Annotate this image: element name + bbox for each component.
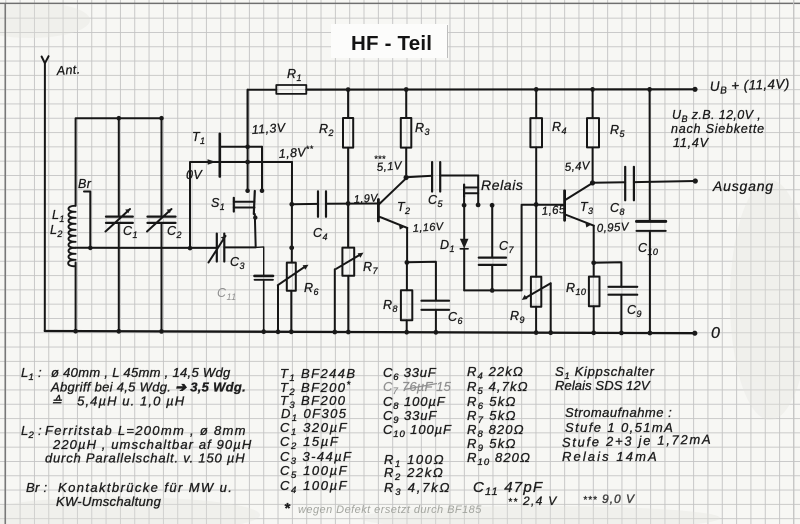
transistor T2 [378, 178, 407, 262]
capacitor C1 (variable) [106, 118, 133, 331]
capacitor C11 [255, 247, 274, 332]
resistor R4 [530, 89, 542, 276]
capacitor C7 [479, 205, 506, 290]
capacitor C5 [406, 162, 478, 191]
switch S1 [234, 191, 255, 214]
svg-text:5,1V: 5,1V [376, 160, 403, 174]
node: T2 collector junction [404, 175, 409, 180]
relay coil [464, 176, 478, 206]
resistor R2 [343, 90, 353, 248]
svg-text:Abgriff bei 4,5 Wdg. ➔ 3,5 Wdg: Abgriff bei 4,5 Wdg. ➔ 3,5 Wdg. [50, 380, 246, 395]
wire: antenna down-lead [44, 63, 46, 331]
node: T3 base junction [534, 202, 539, 207]
node: T3 collector junction [590, 180, 595, 185]
wire: T1 gate line [190, 162, 292, 248]
node: stray junction below C4 [289, 245, 294, 250]
capacitor C8 [593, 167, 696, 201]
resistor R6 (variable) [278, 263, 309, 332]
transistor T3 [565, 183, 594, 263]
node: C7 top [490, 203, 495, 208]
node: Br tap junction [88, 246, 93, 251]
resistor R8 [401, 262, 412, 332]
svg-text:Relais 14mA: Relais 14mA [562, 449, 659, 464]
node: relay terminal b [476, 203, 481, 208]
wire: tank top [76, 118, 162, 206]
node: relay terminal a [462, 203, 467, 208]
wire: tap to C3 [76, 247, 217, 249]
resistor R7 (variable) [335, 248, 364, 332]
resistor R1 [248, 85, 306, 94]
svg-text:5,4V: 5,4V [564, 160, 591, 174]
svg-text:HF - Teil: HF - Teil [351, 32, 432, 55]
svg-text:≙ 5,4µH u. 1,0 µH: ≙ 5,4µH u. 1,0 µH [51, 394, 185, 409]
svg-text:0: 0 [711, 325, 720, 342]
capacitor C4 [292, 191, 379, 216]
wire: coil bottom to bus [75, 263, 77, 332]
svg-text:** 2,4 V: ** 2,4 V [508, 494, 558, 508]
transistor T1 channel bar [219, 134, 222, 177]
resistor R3 [401, 90, 412, 178]
node: C7 bottom junction [490, 288, 495, 293]
svg-text:*: * [284, 500, 291, 517]
capacitor C3 (trimmer) [209, 234, 226, 263]
svg-text:1,65: 1,65 [541, 204, 566, 218]
wire: supply rail UB+ [306, 88, 695, 90]
node: C1 top [117, 116, 122, 121]
title patch [331, 24, 448, 58]
node: below S1 [253, 215, 257, 219]
node: S1 contact a [245, 188, 250, 193]
node: T3 emitter junction [591, 260, 596, 265]
wire: T1 drain line [221, 146, 263, 148]
svg-text:*** 9,0 V: *** 9,0 V [583, 492, 635, 506]
svg-text:Br :: Br : [26, 480, 48, 495]
node: C2 top [159, 116, 164, 121]
svg-text:11,3V: 11,3V [251, 121, 287, 137]
page border left [4, 3, 6, 524]
svg-text:Br: Br [78, 177, 92, 191]
svg-text:ø 40mm , L 45mm , 14,5 Wdg: ø 40mm , L 45mm , 14,5 Wdg [51, 365, 231, 380]
diode D1 [460, 205, 469, 290]
svg-text:nach Siebkette: nach Siebkette [671, 122, 765, 136]
svg-text:wegen Defekt ersetzt durch BF1: wegen Defekt ersetzt durch BF185 [298, 504, 482, 516]
resistor R5 [587, 89, 599, 182]
page border top [0, 2, 800, 4]
svg-text:0,95V: 0,95V [597, 221, 631, 235]
node: T2 emitter junction [405, 260, 410, 265]
svg-text:Relais SDS 12V: Relais SDS 12V [555, 378, 651, 393]
node: C4 left junction [289, 202, 294, 207]
strike-through on C7 value [404, 384, 437, 390]
capacitor C10 [637, 89, 666, 333]
svg-text:Ausgang: Ausgang [712, 178, 774, 194]
wire: D1/C7 bottom to T3 base [464, 205, 564, 291]
node: R2/C4 junction [346, 201, 351, 206]
node: ground bus junctions [73, 329, 697, 336]
svg-text:Kontaktbrücke für MW u.: Kontaktbrücke für MW u. [58, 480, 233, 495]
wire: gate corner to R6 [291, 162, 293, 263]
svg-text:Relais: Relais [481, 177, 524, 193]
resistor R9 (variable) [522, 277, 551, 333]
wire: T1 to gate line [247, 147, 249, 191]
wire: R1 left to T1 [247, 90, 249, 147]
svg-text:11,4V: 11,4V [673, 136, 710, 150]
resistor R10 [589, 263, 600, 333]
svg-text:1,16V: 1,16V [412, 221, 445, 235]
svg-text:durch Parallelschalt. v. 150 µ: durch Parallelschalt. v. 150 µH [45, 451, 245, 466]
wire: ground bus 0 [45, 331, 695, 333]
bridge Br [84, 192, 90, 248]
node: Ausgang terminal [693, 178, 698, 183]
page edge right [793, 0, 795, 524]
node: gate line junction [245, 160, 250, 165]
svg-text:Ferritstab L=200mm , ø 8mm: Ferritstab L=200mm , ø 8mm [45, 423, 247, 438]
svg-text:KW-Umschaltung: KW-Umschaltung [56, 494, 162, 509]
capacitor C9 [594, 262, 638, 333]
inductor L1 L2 [68, 206, 75, 248]
svg-text:Stromaufnahme :: Stromaufnahme : [565, 405, 672, 420]
wire: S1 to C3 node [224, 214, 255, 247]
node: T1 drain junction [245, 144, 250, 149]
T1 gate arrow [208, 159, 217, 165]
svg-text:0V: 0V [186, 168, 203, 182]
svg-text:1,9V: 1,9V [353, 192, 379, 206]
svg-text:Ant.: Ant. [55, 62, 81, 78]
antenna [42, 56, 49, 63]
node: rail junctions [346, 87, 698, 92]
capacitor C2 (variable) [147, 118, 176, 331]
capacitor C6 [407, 262, 449, 333]
node: S1 contact b [260, 188, 265, 193]
wire: T1 source drop [261, 147, 263, 191]
node: gate-drop tap junction [188, 246, 193, 251]
